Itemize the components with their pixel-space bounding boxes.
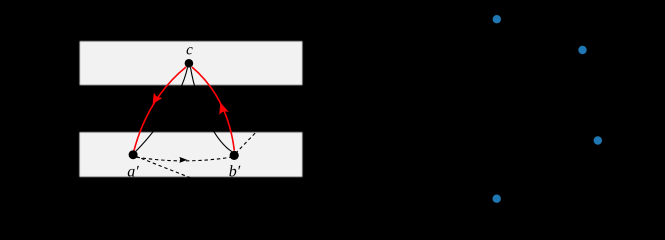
black edge c to a' (bend inward) <box>136 68 188 152</box>
dashed edge from b' up-right <box>236 126 263 153</box>
label a' <box>127 163 139 180</box>
dashed arrowhead a'->b' <box>179 157 187 163</box>
blue dot 3 (right figure, lower right) <box>594 136 602 144</box>
svg-text:a′: a′ <box>127 163 139 180</box>
node c <box>185 59 194 68</box>
red arrowhead c->a' (points down-left) <box>153 94 161 104</box>
blue dot 4 (right figure, bottom) <box>493 195 501 203</box>
black edge c to b' (bend inward) <box>191 68 232 152</box>
red arrowhead b'->c (points up) <box>220 104 228 114</box>
band top (vertex class strip 1) <box>80 41 303 85</box>
label c <box>186 42 193 58</box>
label b' <box>229 163 241 180</box>
node b' <box>230 151 239 160</box>
dashed edge from a' down-right <box>136 156 197 180</box>
blue dot 2 (right figure, upper right) <box>578 46 586 54</box>
node a' <box>129 150 138 159</box>
svg-text:c: c <box>186 42 193 58</box>
dashed edge a'-b' with arrow <box>137 157 232 161</box>
red edge c to a' <box>134 67 186 151</box>
red edge b' to c <box>192 67 234 151</box>
blue dot 1 (right figure, top) <box>493 15 501 23</box>
band bottom (vertex class strip 2) <box>79 132 302 177</box>
svg-text:b′: b′ <box>229 163 241 180</box>
